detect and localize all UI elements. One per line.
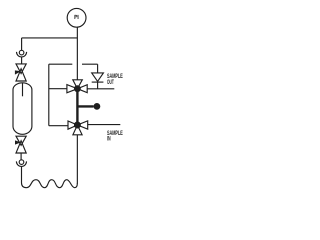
wire: sample in line (88, 124, 121, 126)
3-way valve V4 (lower) (68, 121, 88, 135)
wire: left bus vertical (48, 64, 50, 126)
wire: left column upper segment (21, 38, 23, 51)
check valve CV1 (92, 73, 104, 89)
wire: top horizontal from left column to PI stem (22, 37, 78, 39)
vessel (sample cylinder) (13, 83, 32, 135)
wire: crossover horizontal (gap over PI stem) (49, 63, 98, 65)
wire: lower valve bottom down to coil (76, 135, 78, 184)
svg-text:OUT: OUT (107, 79, 114, 86)
wire: sample out line (87, 88, 114, 90)
gauge PI (67, 8, 86, 27)
3-way valve V3 (upper) (67, 80, 87, 93)
wire: thick line between valves (76, 89, 78, 125)
wire: valve V2 to bottom regulator (20, 153, 22, 160)
regulator symbol (bottom) (16, 160, 26, 167)
svg-text:IN: IN (107, 136, 111, 143)
plug (dot) (94, 103, 101, 110)
wire: regulator to valve V1 (21, 57, 23, 64)
wire: thick stub to plug (77, 105, 93, 107)
valve V1 (needle valve, vertical bowtie) (15, 64, 26, 81)
wire: left bus to lower valve (49, 125, 68, 127)
wire: left bus to upper valve (49, 88, 67, 90)
wire: bottom coil (flexible tubing) (22, 166, 78, 187)
dip tube (22, 83, 24, 97)
wire: PI stem down to upper 3-way valve (76, 27, 78, 80)
wire: check valve drop (97, 64, 99, 73)
regulator symbol (top) (17, 50, 27, 57)
valve V2 (below vessel, vertical bowtie) (15, 136, 26, 153)
